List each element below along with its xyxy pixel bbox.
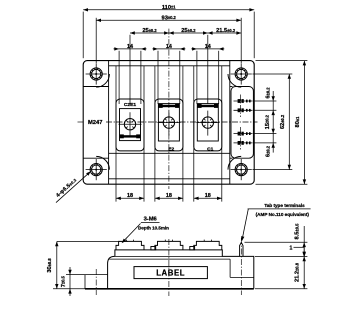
pedestal platform bottom line (top view) (109, 152, 230, 154)
dim col 6/15/6 (272, 91, 275, 153)
LABEL box (134, 267, 207, 279)
svg-text:14: 14 (127, 44, 133, 50)
terminal square C1 (197, 104, 218, 141)
body edge extensions right (256, 61, 308, 185)
side view ledge front edge (115, 255, 222, 257)
terminal pedestal C1 (194, 99, 222, 151)
lid inner left edge (108, 61, 110, 185)
corner pocket wall bottom-left (83, 157, 108, 159)
bump screw hole ticks C1 (204, 240, 211, 242)
side view platform (115, 250, 254, 289)
dim 110+-1 extension left (82, 12, 84, 59)
svg-text:E2: E2 (168, 147, 174, 153)
ext ledge right (255, 255, 307, 257)
side view terminal bump C2E1 (116, 241, 144, 250)
leader tab note (241, 209, 248, 241)
side view terminal bump E2 (155, 241, 183, 250)
terminal screw hole C2E1 (124, 119, 135, 130)
vertical centerline through E2 (side view) (168, 239, 170, 296)
gap nub 1 (151, 247, 156, 250)
terminal pedestal E2 (155, 99, 183, 151)
corner pocket wall top-right stub (230, 86, 233, 88)
dim 93 extension left (hole centerline up) (95, 18, 97, 63)
dim 14 at x=168.9 (152, 47, 185, 104)
tab group centerline lower (240, 127, 242, 150)
mounting hole (bl) (86, 156, 110, 180)
dim line 62+-0.2 (288, 74, 291, 170)
terminal centerline ext C2E1 (129, 35, 131, 104)
mounting hole (tr) (228, 63, 252, 87)
corner pocket wall top-left (83, 86, 108, 88)
dim line 25/25/21.5 (130, 31, 241, 34)
svg-text:Tab type terminals: Tab type terminals (264, 203, 305, 208)
svg-text:14: 14 (166, 44, 172, 50)
tab row extensions right (253, 101, 277, 143)
dim line 8.5 (303, 226, 306, 256)
svg-text:1: 1 (290, 245, 293, 251)
lid bottom edge (109, 178, 230, 180)
bump screw hole ticks E2 (165, 240, 172, 242)
svg-text:Depth 10.5min: Depth 10.5min (138, 225, 169, 230)
terminal pedestal C2E1 (116, 99, 144, 151)
lid inner right edge (229, 61, 231, 185)
ext bump top left (57, 240, 128, 242)
pedestal edge lines x=130.0 (116, 66, 144, 202)
terminal square E2 (158, 104, 179, 141)
module body outline (top view) (83, 61, 254, 185)
mounting hole (br) (228, 156, 252, 180)
tab terminal strip outline (231, 87, 253, 159)
dim line 7 (68, 267, 71, 296)
busbar E2 (159, 104, 180, 108)
svg-text:18: 18 (166, 193, 172, 199)
busbar C1 (197, 104, 218, 108)
bump screw hole ticks C2E1 (126, 240, 133, 242)
dim line 21.2 (303, 256, 306, 288)
tab terminal row 1 (234, 99, 253, 103)
gap nub 2 (190, 247, 195, 250)
terminal crosshair C2E1 (119, 112, 142, 137)
tab terminal row 4 (234, 141, 253, 145)
dim 1 leader (290, 245, 306, 257)
side view under-step line (109, 258, 230, 260)
terminal crosshair C1 (196, 111, 219, 136)
side view tab terminal (240, 242, 243, 256)
dim line 93+-0.2 (96, 19, 241, 22)
dim line 30 (55, 241, 58, 288)
horizontal centerline (top view) (78, 121, 258, 123)
tab group centerline upper (240, 95, 242, 118)
tab terminal row 3 (234, 132, 253, 136)
busbar C2E1 (120, 134, 141, 138)
tab centerline (side view) (240, 238, 242, 295)
side view terminal bump C1 (194, 241, 222, 250)
leader 4-dia6.5 (56, 171, 91, 202)
dim 14 at x=207.8 (191, 47, 224, 104)
svg-text:14: 14 (205, 44, 211, 50)
corner pocket wall bottom-right stub (230, 157, 233, 159)
terminal crosshair E2 (157, 111, 180, 136)
terminal screw hole C1 (202, 117, 213, 128)
vertical centerline through E2 (top view) (168, 29, 170, 189)
ext tab top right (245, 241, 308, 243)
dim line 110+-1 (83, 8, 254, 11)
mounting hole (tl) (86, 63, 110, 87)
terminal centerline ext C1 (207, 35, 209, 104)
ext flange top left (66, 274, 85, 276)
side view recess (230, 259, 254, 277)
note 3-M6 underline (141, 221, 160, 223)
side view case left edge (108, 256, 115, 288)
pedestal edge lines x=168.9 (155, 66, 183, 202)
pedestal edge lines x=207.8 (194, 66, 222, 202)
dim 110+-1 extension right (253, 12, 255, 59)
ext bottom right (255, 288, 307, 290)
svg-text:3-M6: 3-M6 (144, 217, 158, 223)
hole center extensions right (253, 74, 293, 170)
dim line 80+-1 (303, 61, 306, 185)
dim 14 at x=130.0 (114, 47, 147, 104)
svg-text:(AMP No.110 equivalent): (AMP No.110 equivalent) (256, 212, 310, 217)
svg-text:C1: C1 (207, 147, 214, 153)
ext bottom left (53, 288, 85, 290)
side view baseplate flange (85, 275, 108, 289)
note underline (248, 208, 311, 210)
svg-text:M247: M247 (88, 120, 103, 126)
leader 3-M6 (122, 224, 141, 244)
svg-text:18: 18 (127, 193, 133, 199)
lid top edge (109, 65, 230, 67)
dim 93 extension right (240, 18, 242, 63)
terminal screw hole E2 (163, 117, 174, 128)
side view bottom line (85, 288, 254, 290)
svg-text:18: 18 (205, 193, 211, 199)
svg-text:LABEL: LABEL (156, 269, 185, 278)
dim line 18 row (116, 197, 222, 200)
hole centerline (side view) (95, 269, 97, 295)
tab terminal row 2 (234, 108, 253, 112)
terminal square C2E1 (120, 109, 141, 141)
